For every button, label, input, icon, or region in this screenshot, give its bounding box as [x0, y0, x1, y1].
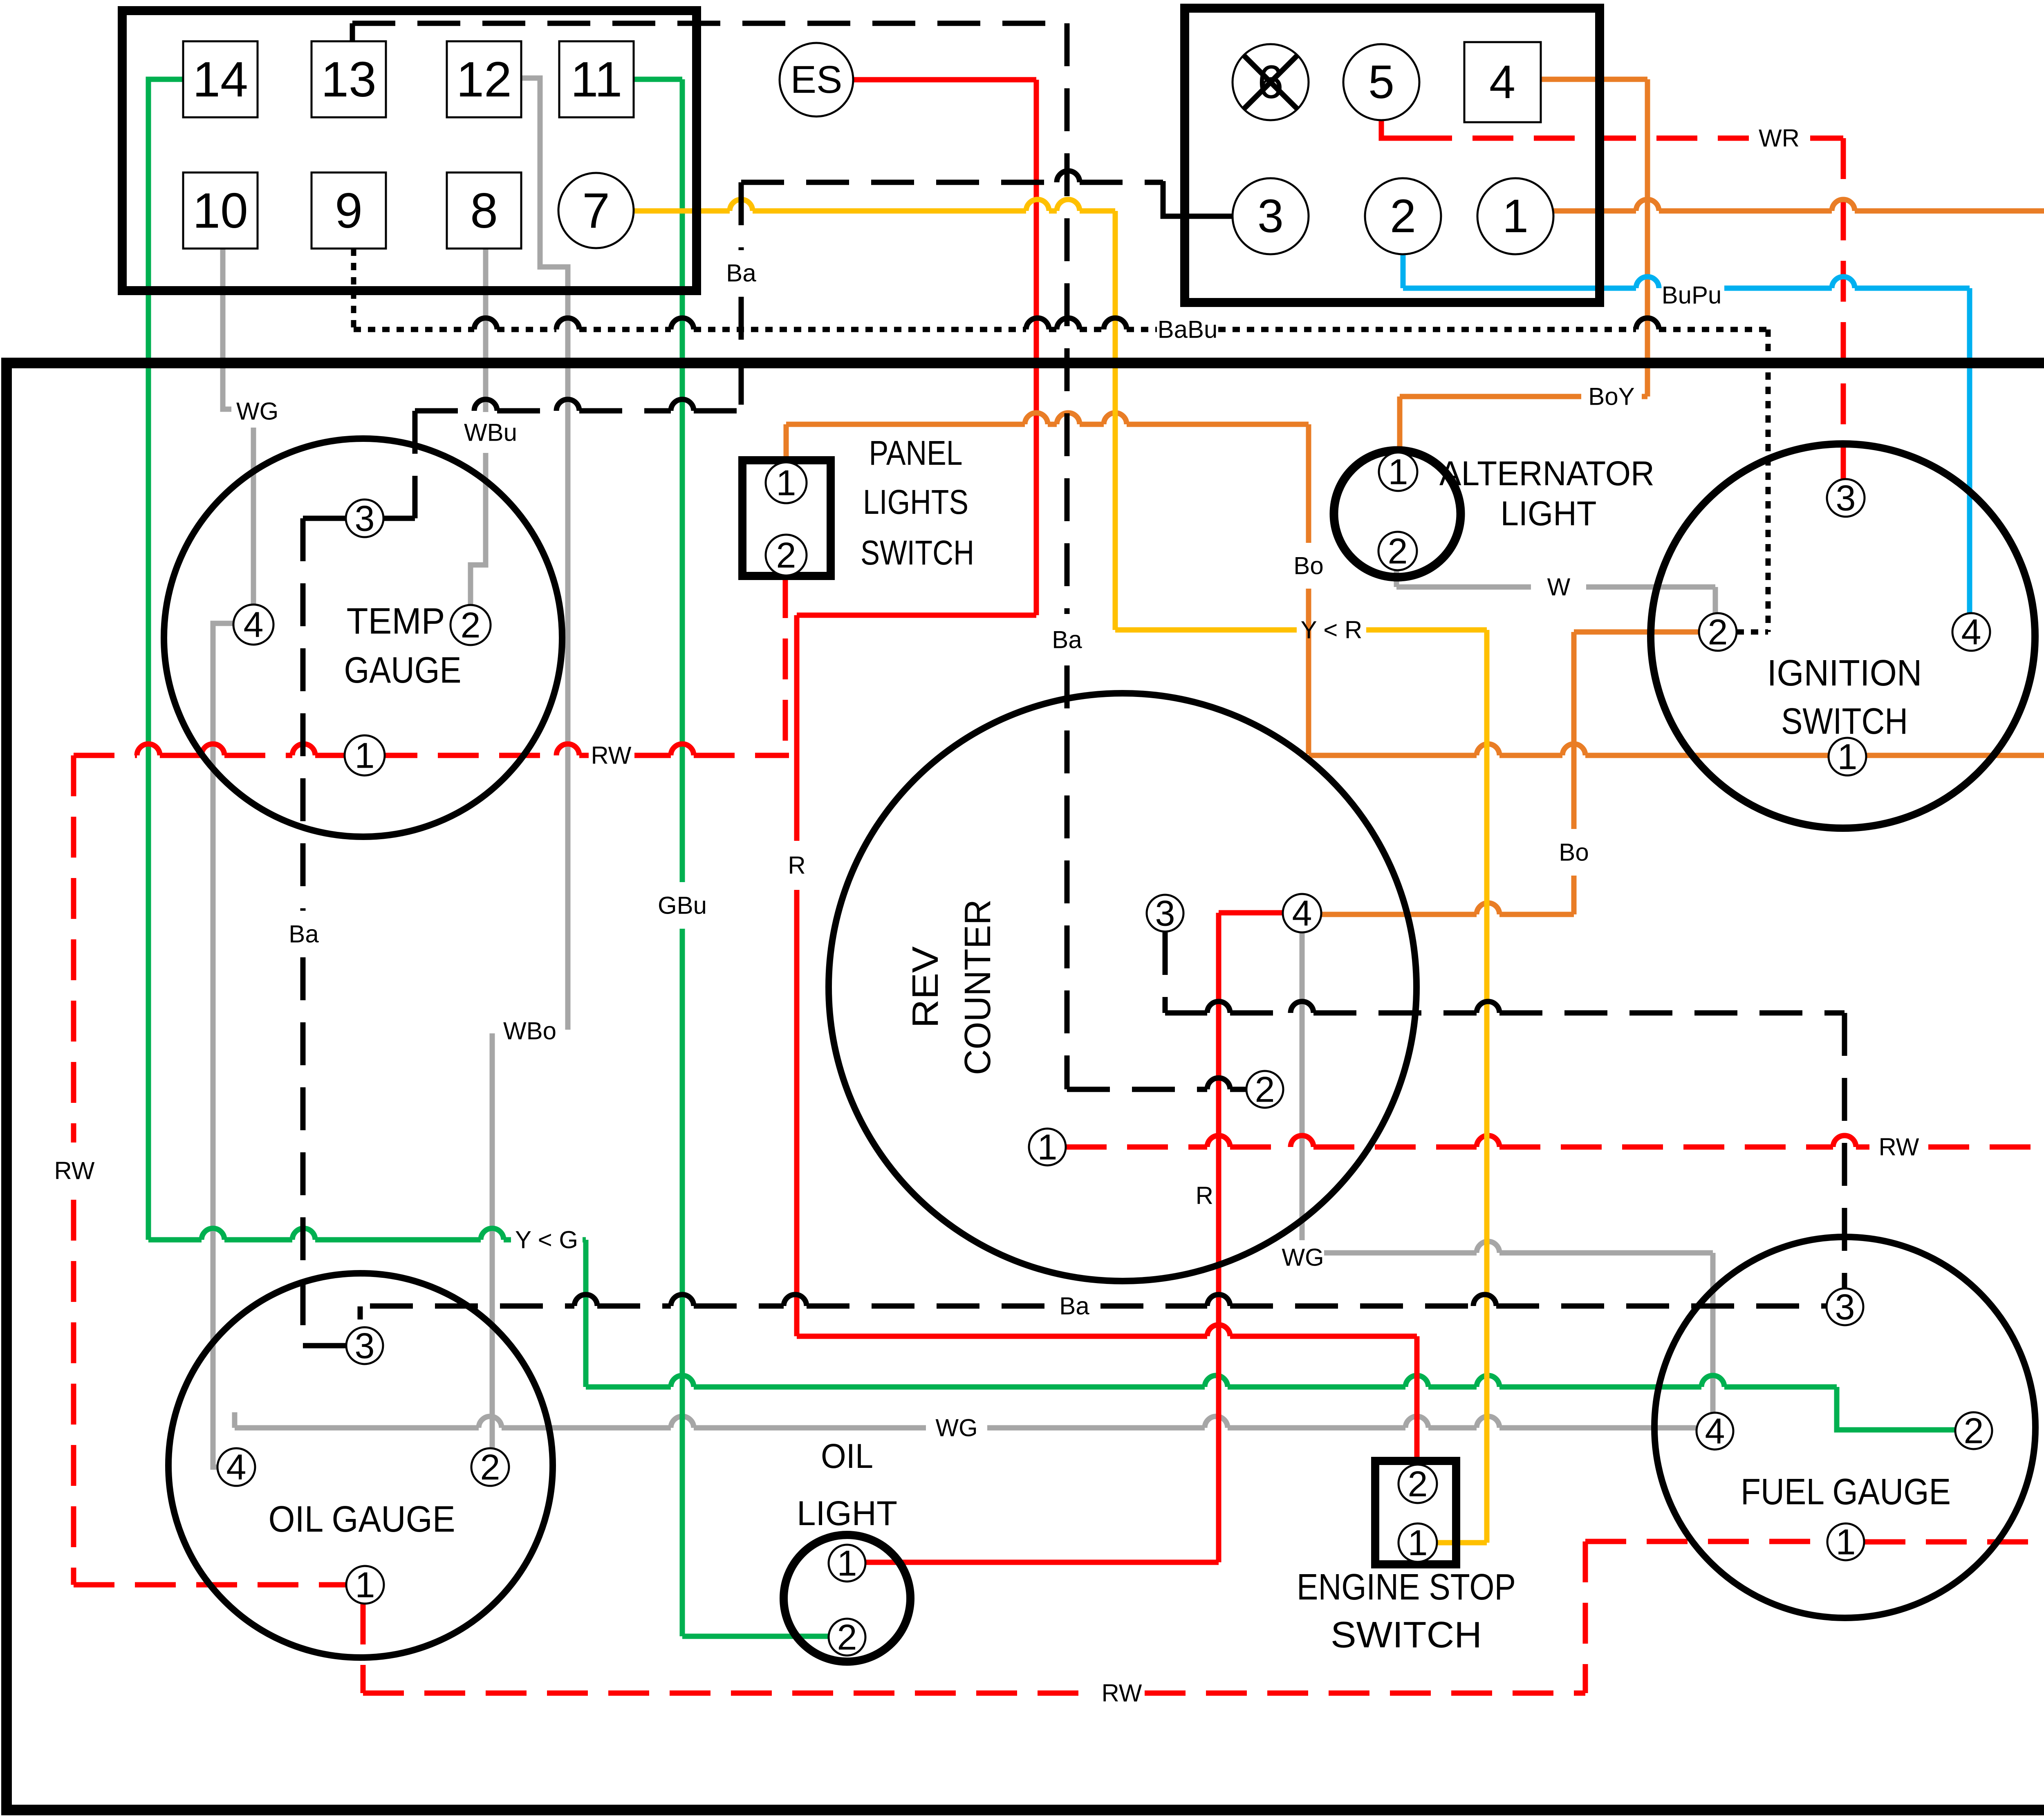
wire Bo ignition 2 to rev counter 4: [1321, 632, 1699, 914]
svg-text:9: 9: [335, 183, 363, 238]
svg-text:1: 1: [355, 735, 375, 776]
svg-text:BuPu: BuPu: [1662, 282, 1722, 309]
svg-text:1: 1: [355, 1565, 375, 1605]
svg-text:2: 2: [480, 1447, 500, 1487]
wire WG rev counter 4 down: [1302, 932, 1713, 1412]
wire Ba temp gauge 3 earth run: [383, 171, 1163, 518]
svg-text:2: 2: [1390, 190, 1416, 242]
svg-text:IGNITION: IGNITION: [1767, 653, 1922, 694]
svg-text:14: 14: [193, 52, 248, 107]
svg-text:3: 3: [1257, 190, 1284, 242]
svg-text:2: 2: [461, 605, 481, 645]
svg-text:LIGHT: LIGHT: [797, 1494, 897, 1532]
svg-text:GAUGE: GAUGE: [344, 650, 462, 691]
svg-text:WR: WR: [1759, 125, 1800, 152]
wire Ba oil gauge 3 to fuel gauge 3: [360, 1295, 1826, 1319]
wire GBu connector 11 to oil light 2: [634, 79, 829, 1636]
wire WR heat connector 5 to ignition 3: [1381, 119, 1411, 138]
svg-text:OIL: OIL: [821, 1437, 873, 1475]
svg-text:Ba: Ba: [1052, 626, 1082, 654]
svg-text:3: 3: [355, 498, 375, 539]
svg-text:3: 3: [1835, 1287, 1855, 1327]
svg-text:SWITCH: SWITCH: [1781, 701, 1908, 742]
wire Y engine stop connector 7 to engine stop switch 1: [634, 199, 1487, 1543]
svg-text:RW: RW: [54, 1157, 95, 1185]
fuel gauge: [1654, 1237, 2035, 1618]
svg-text:7: 7: [582, 183, 610, 238]
connector block B (pins 1-6): [1185, 8, 1600, 302]
wire BuPu connector 2 to ignition 4: [1403, 254, 1970, 613]
svg-text:8: 8: [470, 183, 498, 238]
temp gauge: [164, 439, 562, 837]
svg-text:Y < R: Y < R: [1301, 616, 1363, 644]
svg-text:3: 3: [1155, 893, 1175, 934]
wire BoY alternator connector 4 to alternator light 1: [1400, 79, 1647, 470]
svg-text:4: 4: [1292, 893, 1312, 934]
svg-text:LIGHTS: LIGHTS: [863, 483, 968, 521]
main instrument panel box: [7, 363, 2044, 1810]
wire WBo connector 12 to oil gauge 2: [492, 78, 568, 1448]
svg-text:R: R: [788, 852, 805, 879]
svg-text:SWITCH: SWITCH: [1331, 1615, 1482, 1655]
svg-text:FUEL GAUGE: FUEL GAUGE: [1741, 1472, 1951, 1512]
svg-text:1: 1: [837, 1543, 857, 1584]
svg-text:Ba: Ba: [1059, 1293, 1089, 1320]
svg-text:RW: RW: [1102, 1680, 1142, 1707]
wire R rev counter 4 to oil light 1: [866, 913, 1283, 1562]
svg-text:4: 4: [1489, 56, 1515, 108]
svg-text:WBo: WBo: [503, 1017, 556, 1045]
svg-text:13: 13: [321, 52, 377, 107]
svg-text:Ba: Ba: [726, 260, 756, 287]
wire WG temp gauge 4 to oil gauge 4: [213, 623, 233, 1467]
svg-text:10: 10: [193, 183, 248, 238]
svg-text:ALTERNATOR: ALTERNATOR: [1439, 454, 1654, 493]
wire WG from connector 10: [223, 249, 253, 605]
svg-text:Y < G: Y < G: [515, 1226, 578, 1254]
alternator light: [1334, 450, 1654, 577]
svg-text:RW: RW: [591, 742, 632, 769]
svg-text:1: 1: [1836, 1522, 1856, 1562]
svg-text:1: 1: [1502, 190, 1529, 242]
svg-text:GBu: GBu: [658, 892, 707, 919]
wire Bo live net panel 1 / ignition 1 / connector 1: [786, 199, 2044, 755]
wire G connector 14 to fuel gauge 2: [148, 79, 1955, 1430]
wire WG oil gauge 4 to fuel gauge 4: [235, 1412, 1696, 1428]
svg-text:Bo: Bo: [1559, 839, 1589, 866]
svg-text:12: 12: [456, 52, 512, 107]
wire Ba connector 13 to rev counter 2: [352, 23, 1246, 1089]
svg-text:2: 2: [1255, 1069, 1275, 1110]
wire BaBu connector 9 to ignition 2: [354, 249, 1768, 632]
svg-text:3: 3: [355, 1326, 375, 1366]
wire Ba temp gauge 3 to oil gauge 3: [303, 518, 346, 1346]
oil gauge: [168, 1273, 553, 1658]
panel lights switch: [742, 434, 974, 576]
svg-text:4: 4: [1961, 612, 1981, 652]
svg-text:4: 4: [244, 605, 264, 645]
svg-text:Ba: Ba: [289, 921, 319, 948]
wire W alternator light 2 to ignition 2: [1396, 570, 1715, 613]
svg-text:2: 2: [1388, 531, 1408, 571]
svg-text:COUNTER: COUNTER: [957, 899, 998, 1075]
svg-text:2: 2: [1964, 1411, 1984, 1451]
rev counter: [829, 693, 1416, 1281]
svg-text:5: 5: [1368, 56, 1394, 108]
svg-text:3: 3: [1836, 478, 1856, 518]
wire RW loop temp 1 / oil 1 / fuel 1 / rev 1: [74, 744, 2044, 1693]
svg-text:WBu: WBu: [464, 419, 517, 446]
svg-text:ES: ES: [791, 58, 843, 101]
svg-text:BaBu: BaBu: [1158, 316, 1218, 343]
wire WBu connector 8 to temp gauge 2: [471, 249, 486, 605]
svg-text:4: 4: [1705, 1411, 1725, 1452]
svg-text:ENGINE STOP: ENGINE STOP: [1297, 1567, 1516, 1608]
svg-text:6: 6: [1257, 56, 1284, 108]
svg-text:WG: WG: [935, 1414, 977, 1442]
svg-text:TEMP: TEMP: [347, 601, 445, 642]
svg-text:2: 2: [776, 535, 796, 576]
svg-text:2: 2: [837, 1617, 857, 1658]
svg-text:R: R: [1196, 1182, 1213, 1210]
svg-text:PANEL: PANEL: [869, 434, 963, 472]
svg-text:Bo: Bo: [1293, 552, 1323, 580]
connector ES (engine stop): [780, 43, 853, 116]
svg-text:SWITCH: SWITCH: [861, 533, 974, 572]
svg-text:RW: RW: [1879, 1134, 1919, 1161]
connector block A (pins 7-14): [122, 11, 697, 291]
wire stub connector 13: [350, 23, 355, 41]
svg-text:LIGHT: LIGHT: [1501, 494, 1597, 533]
svg-text:2: 2: [1708, 612, 1728, 652]
svg-text:1: 1: [1388, 452, 1408, 492]
wire stub to connector block B pin 3: [1163, 181, 1233, 216]
svg-text:2: 2: [1408, 1464, 1428, 1504]
svg-text:BoY: BoY: [1588, 383, 1634, 410]
svg-text:4: 4: [226, 1447, 247, 1487]
wire WR dashed run: [1411, 138, 1843, 479]
svg-text:OIL GAUGE: OIL GAUGE: [269, 1499, 455, 1540]
wire Ba rev counter 3 to fuel gauge 3: [1165, 932, 1845, 1290]
engine stop switch: [1297, 1461, 1516, 1655]
svg-text:11: 11: [571, 52, 623, 107]
svg-text:1: 1: [1038, 1127, 1058, 1167]
wire R engine stop net from ES: [797, 80, 1417, 1465]
svg-text:REV: REV: [905, 946, 946, 1028]
svg-text:WG: WG: [236, 398, 278, 425]
svg-text:1: 1: [1408, 1523, 1428, 1563]
wire RW panel lights switch 2 drop: [783, 577, 788, 751]
ignition switch: [1651, 444, 2035, 828]
svg-text:WG: WG: [1282, 1244, 1324, 1271]
svg-text:W: W: [1547, 573, 1571, 601]
oil light: [784, 1437, 910, 1662]
svg-text:1: 1: [1838, 737, 1858, 777]
svg-text:1: 1: [776, 463, 796, 503]
